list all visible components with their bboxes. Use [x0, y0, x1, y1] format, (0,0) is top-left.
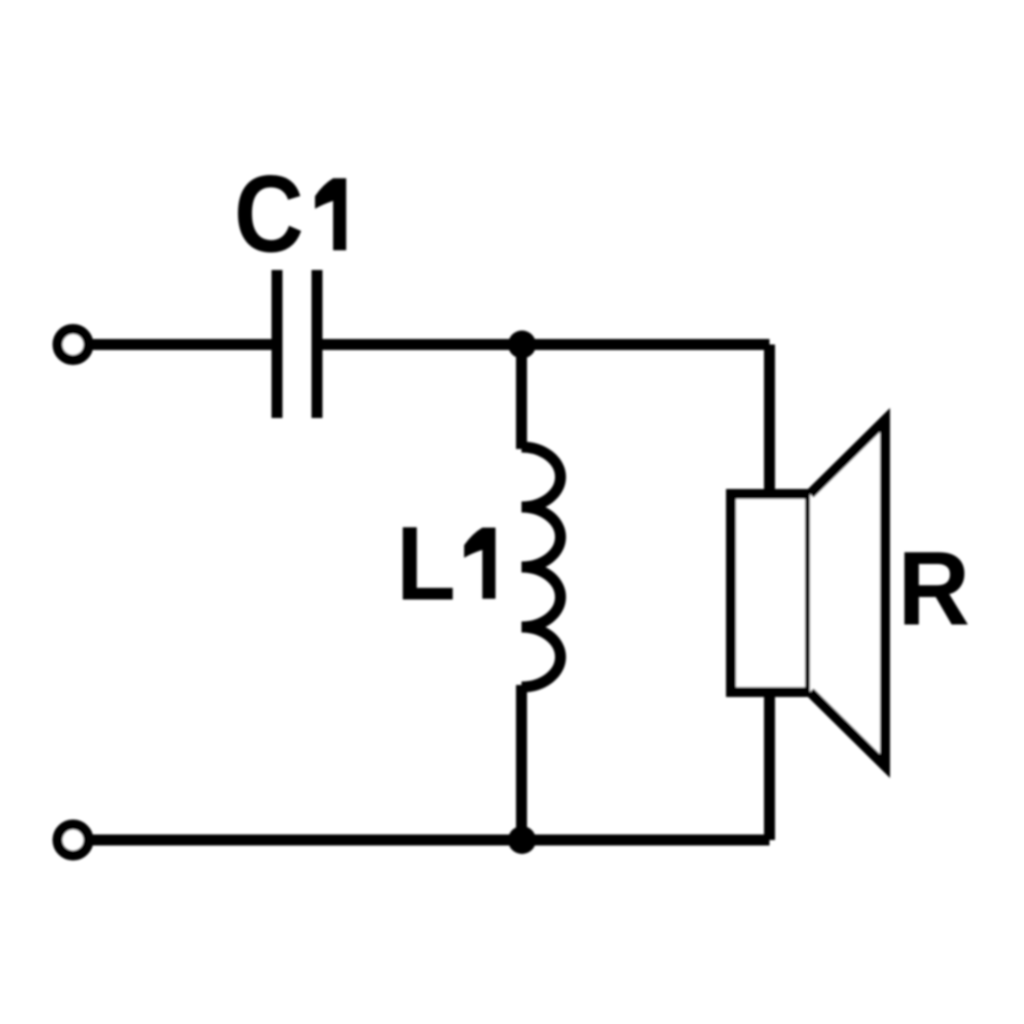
node junction top (dot) — [508, 331, 536, 359]
node junction bottom (dot) — [508, 826, 536, 854]
svg-text:R: R — [898, 529, 970, 647]
wire top rail right segment (C1 to speaker branch) — [317, 339, 770, 350]
wire L1 bottom lead — [516, 685, 527, 840]
wire top rail left segment (terminal to C1) — [88, 339, 277, 350]
terminal T2 (bottom-left input, open circle) — [58, 825, 89, 856]
svg-text:C: C — [234, 153, 304, 275]
wire speaker top lead — [764, 345, 775, 496]
wire L1 top lead — [516, 345, 527, 450]
inductor L1 (4-loop coil) — [522, 447, 561, 687]
svg-text:L: L — [396, 505, 455, 622]
terminal T1 (top-left input, open circle) — [58, 329, 89, 360]
speaker R driver body (rectangle) — [731, 494, 810, 692]
speaker R cone (trapezoid horn) — [810, 420, 885, 766]
wire bottom rail — [88, 835, 770, 846]
label L1 — [396, 505, 495, 622]
capacitor C1 — [277, 270, 317, 418]
wire speaker bottom lead — [764, 691, 775, 840]
label C1 — [234, 153, 346, 275]
